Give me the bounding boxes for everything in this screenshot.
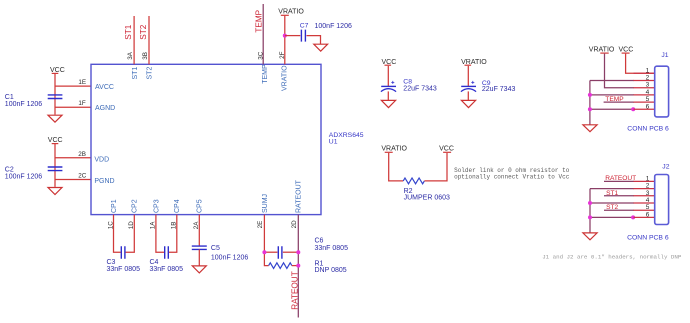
svg-text:CP2: CP2 <box>132 199 139 213</box>
op-amp/IC U1 ADXRS645 body <box>91 64 364 214</box>
wire pin 2E SUMJ down <box>264 215 268 266</box>
wire R2 to VCC <box>424 153 447 181</box>
svg-text:4: 4 <box>646 89 650 96</box>
svg-text:2: 2 <box>646 183 650 190</box>
svg-text:33nF 0805: 33nF 0805 <box>107 266 141 273</box>
power VCC (feeds VDD/PGND) <box>48 137 63 144</box>
svg-text:5: 5 <box>646 96 650 103</box>
svg-text:CP3: CP3 <box>153 199 160 213</box>
junction (VRATIO / C7 tap) <box>283 34 287 38</box>
svg-text:33nF 0805: 33nF 0805 <box>315 245 349 252</box>
ground (C9) <box>461 100 475 107</box>
power VRATIO (over J1) <box>589 47 615 54</box>
svg-text:CP4: CP4 <box>174 199 181 213</box>
power VCC (R2 right) <box>439 146 454 153</box>
wire pin 1E AVCC <box>55 85 91 87</box>
svg-text:3: 3 <box>646 190 650 197</box>
svg-text:33nF 0805: 33nF 0805 <box>150 266 184 273</box>
power VRATIO (top, feeds pin 2F and C7) <box>278 9 304 16</box>
wire pin 1C CP1 down <box>114 215 121 253</box>
svg-text:C3: C3 <box>107 259 116 266</box>
power VCC (over C8) <box>382 59 397 66</box>
wire VCC to J1 pin 1 <box>626 54 655 74</box>
svg-text:3: 3 <box>646 82 650 89</box>
ground (C8) <box>381 100 395 107</box>
pin stubs J2 <box>634 181 655 217</box>
svg-text:VRATIO: VRATIO <box>281 65 288 91</box>
capacitor C9 22uF 7343 (polarized) <box>461 80 516 93</box>
svg-text:CONN PCB 6: CONN PCB 6 <box>627 234 669 241</box>
wire C9 to ground <box>467 91 469 100</box>
svg-text:3B: 3B <box>142 52 149 60</box>
svg-text:22uF 7343: 22uF 7343 <box>403 85 437 92</box>
connector J2 CONN PCB 6 <box>627 164 670 242</box>
wire pin 2B VDD <box>55 157 91 159</box>
junction RATEOUT/C6 <box>296 250 300 254</box>
svg-text:2B: 2B <box>78 151 86 158</box>
svg-text:4: 4 <box>646 197 650 204</box>
svg-text:2A: 2A <box>193 221 200 230</box>
junction bus/row4 <box>588 93 592 97</box>
wire RATEOUT to J2 pin 1 <box>604 180 634 182</box>
connector J1 CONN PCB 6 <box>627 52 669 132</box>
wire ground bus J1 (pins 2,4,6) <box>590 81 634 125</box>
svg-text:100nF 1206: 100nF 1206 <box>5 173 42 180</box>
junction RATEOUT/R1 <box>296 264 300 268</box>
capacitor C3 33nF 0805 <box>107 246 141 273</box>
ground (C7) <box>314 44 328 51</box>
svg-text:C6: C6 <box>315 237 324 244</box>
svg-text:CP1: CP1 <box>111 199 118 213</box>
svg-text:1E: 1E <box>78 79 86 86</box>
power VRATIO (R2 left) <box>381 146 407 153</box>
capacitor C6 33nF 0805 <box>278 237 348 258</box>
wire pin 1B CP4 down <box>169 215 177 253</box>
svg-text:ST2: ST2 <box>139 24 148 39</box>
wire pin 1A CP3 down <box>156 215 164 253</box>
svg-text:1F: 1F <box>78 100 86 107</box>
svg-text:1C: 1C <box>107 221 114 230</box>
svg-text:C5: C5 <box>211 245 220 252</box>
svg-text:JUMPER 0603: JUMPER 0603 <box>404 195 450 202</box>
svg-text:2: 2 <box>646 75 650 82</box>
svg-text:VDD: VDD <box>94 156 109 163</box>
junction bus/row6 <box>588 107 592 111</box>
svg-text:2C: 2C <box>78 172 87 179</box>
pin stubs J1 <box>634 73 655 109</box>
svg-text:1B: 1B <box>171 222 178 230</box>
svg-text:J1 and J2 are 0.1" headers, no: J1 and J2 are 0.1" headers, normally DNP <box>542 253 682 260</box>
svg-text:C7: C7 <box>300 23 309 30</box>
junction row6 mid <box>631 107 635 111</box>
svg-text:C1: C1 <box>5 94 14 101</box>
power VCC (top left, feeds AVCC/AGND) <box>50 67 65 74</box>
wire VCC to C8 <box>387 66 389 86</box>
wire net ST1 (top pin 3A) <box>133 16 135 64</box>
junction row6 mid (J2) <box>631 215 635 219</box>
svg-text:PGND: PGND <box>94 178 114 185</box>
svg-text:2E: 2E <box>257 221 264 229</box>
wire pin 1F AGND <box>55 106 91 108</box>
svg-text:VRATIO: VRATIO <box>278 9 304 16</box>
svg-text:VRATIO: VRATIO <box>381 146 407 153</box>
resistor R2 JUMPER 0603 <box>403 178 450 202</box>
wire R1 to RATEOUT <box>292 265 299 267</box>
svg-text:1D: 1D <box>128 221 135 230</box>
svg-text:5: 5 <box>646 204 650 211</box>
svg-text:100nF 1206: 100nF 1206 <box>211 254 248 261</box>
wire ST2 to J2 pin 5 <box>604 209 634 211</box>
svg-text:100nF 1206: 100nF 1206 <box>5 101 42 108</box>
ground (C5) <box>192 266 206 273</box>
svg-text:ST1: ST1 <box>124 24 133 39</box>
svg-text:2D: 2D <box>291 220 298 229</box>
svg-text:DNP 0805: DNP 0805 <box>315 267 347 274</box>
wire pin 2C PGND <box>55 179 91 181</box>
wire VRATIO to C7 <box>285 35 301 37</box>
capacitor C4 33nF 0805 <box>150 246 184 273</box>
capacitor C2 100nF 1206 <box>5 167 63 181</box>
svg-text:ST2: ST2 <box>147 67 154 80</box>
wire C5 to ground <box>198 249 200 265</box>
capacitor C5 100nF 1206 <box>192 245 249 261</box>
svg-text:1A: 1A <box>150 221 157 230</box>
capacitor C8 22uF 7343 (polarized) <box>381 79 437 93</box>
svg-text:CONN PCB 6: CONN PCB 6 <box>627 126 669 133</box>
note solder link <box>454 167 570 180</box>
svg-text:6: 6 <box>646 211 650 218</box>
junction bus/row6 (J2) <box>588 215 592 219</box>
svg-text:3A: 3A <box>127 51 134 60</box>
wire net TEMP (top pin 3C) <box>262 4 264 64</box>
svg-text:TEMP: TEMP <box>255 9 264 32</box>
wire VRATIO to R2 <box>389 153 404 181</box>
power VCC (over J1) <box>619 47 634 54</box>
wire VRATIO to J1 pin 3 <box>605 54 635 88</box>
wire pin 2A CP5 down <box>198 215 200 246</box>
wire VCC vertical through C1 <box>54 74 56 115</box>
capacitor C1 100nF 1206 <box>5 94 63 108</box>
svg-text:VCC: VCC <box>439 146 454 153</box>
power VRATIO (over C9) <box>461 59 487 66</box>
wire pin 1D CP2 down <box>126 215 135 253</box>
svg-text:U1: U1 <box>329 139 338 146</box>
junction SUMJ/C6 <box>262 250 266 254</box>
svg-text:CP5: CP5 <box>197 199 204 213</box>
svg-text:100nF 1206: 100nF 1206 <box>315 23 352 30</box>
svg-text:SUMJ: SUMJ <box>262 194 269 213</box>
svg-text:AVCC: AVCC <box>95 84 114 91</box>
resistor R1 DNP 0805 <box>269 261 347 275</box>
ground (J2) <box>583 233 597 240</box>
wire VRATIO vertical to pin 2F <box>284 16 286 65</box>
svg-text:RATEOUT: RATEOUT <box>296 179 303 213</box>
ground (below C2) <box>48 188 62 195</box>
svg-text:RATEOUT: RATEOUT <box>290 271 299 310</box>
wire C6 to RATEOUT <box>283 251 298 253</box>
junction bus/row4 (J2) <box>588 201 592 205</box>
wire net ST2 (top pin 3B) <box>148 16 150 64</box>
svg-text:1: 1 <box>646 67 650 74</box>
wire C8 to ground <box>387 91 389 100</box>
ground (J1) <box>583 125 597 132</box>
svg-text:6: 6 <box>646 103 650 110</box>
svg-text:3C: 3C <box>258 51 265 60</box>
svg-text:J2: J2 <box>662 164 669 171</box>
svg-text:2F: 2F <box>279 51 286 59</box>
wire TEMP to J1 pin 5 <box>604 101 634 103</box>
ground (below C1) <box>48 115 62 122</box>
svg-text:AGND: AGND <box>95 105 115 112</box>
capacitor C7 100nF 1206 <box>300 23 352 42</box>
svg-text:TEMP: TEMP <box>262 64 269 84</box>
svg-text:1: 1 <box>646 175 650 182</box>
svg-text:22uF 7343: 22uF 7343 <box>482 86 516 93</box>
wire VCC vertical through C2 <box>54 144 56 187</box>
wire pin 2D RATEOUT down <box>297 215 299 318</box>
svg-text:J1: J1 <box>661 52 668 59</box>
wire ST1 to J2 pin 3 <box>604 195 634 197</box>
svg-text:ST1: ST1 <box>132 67 139 80</box>
wire SUMJ to C6 <box>264 251 277 253</box>
wire C7 to ground <box>307 36 321 44</box>
svg-text:optionally connect Vratio to V: optionally connect Vratio to Vcc <box>454 173 570 180</box>
svg-text:C4: C4 <box>150 259 159 266</box>
wire VRATIO to C9 <box>467 66 469 86</box>
wire ground bus J2 (pins 2,4,6) <box>590 189 634 233</box>
